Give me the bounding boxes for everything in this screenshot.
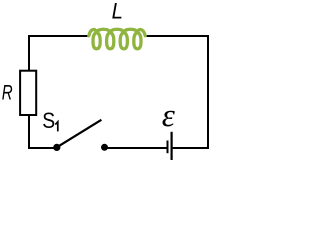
wire: top-left horizontal segment xyxy=(28,35,89,37)
svg-text:R: R xyxy=(2,81,13,105)
switch S1 right contact dot xyxy=(101,144,108,151)
battery positive (long) plate xyxy=(171,132,173,164)
wire: left vertical upper xyxy=(28,35,30,71)
switch S1 arm xyxy=(57,120,102,148)
battery negative (short) plate xyxy=(167,141,169,154)
switch S1 left contact dot xyxy=(53,144,60,151)
wire: left vertical lower xyxy=(28,114,30,149)
wire: top-right horizontal segment xyxy=(145,35,209,37)
svg-text:ε: ε xyxy=(162,98,175,134)
svg-text:S: S xyxy=(42,108,55,133)
wire: right vertical side xyxy=(207,35,209,149)
inductor L coil xyxy=(89,29,145,49)
resistor R body xyxy=(20,71,36,115)
wire: bottom middle segment xyxy=(105,147,167,149)
wire: bottom-left horizontal segment xyxy=(28,147,55,149)
svg-text:L: L xyxy=(112,0,123,24)
wire: bottom-right segment xyxy=(173,147,209,149)
